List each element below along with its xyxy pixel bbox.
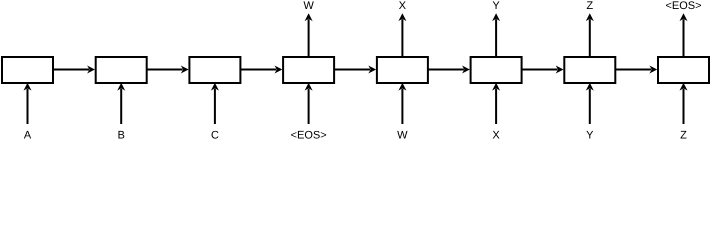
- recurrent arrow box 6 to box 7: [522, 69, 558, 71]
- recurrent arrow box 1 to box 2: [53, 69, 89, 71]
- output arrow from box 7: [589, 19, 591, 56]
- RNN box 8 (decoder cell 5): [658, 57, 709, 83]
- input label X: [493, 131, 500, 139]
- input arrow into box 6: [495, 89, 497, 124]
- RNN box 6 (decoder cell 3): [471, 57, 522, 83]
- recurrent arrow box 3 to box 4: [240, 69, 276, 71]
- recurrent arrow box 4 to box 5: [334, 69, 370, 71]
- input arrow into box 8: [683, 89, 685, 124]
- input arrow into box 1: [27, 89, 29, 124]
- input arrow into box 3: [214, 89, 216, 124]
- RNN box 4 (decoder cell 1): [283, 57, 334, 83]
- output arrow from box 6: [495, 19, 497, 56]
- recurrent arrow box 2 to box 3: [147, 69, 183, 71]
- input arrow into box 5: [401, 89, 403, 124]
- input label Z: [680, 131, 686, 139]
- output label X: [399, 1, 406, 9]
- RNN box 5 (decoder cell 2): [377, 57, 428, 83]
- output arrow from box 5: [401, 19, 403, 56]
- output arrow from box 4: [308, 19, 310, 56]
- RNN box 1 (encoder cell 1): [2, 57, 53, 83]
- input arrow into box 4: [308, 89, 310, 124]
- input arrow into box 2: [120, 89, 122, 124]
- RNN box 3 (encoder cell 3): [189, 57, 240, 83]
- input label A: [24, 131, 31, 139]
- output label Y: [493, 1, 500, 9]
- output label W: [303, 1, 313, 9]
- output arrow from box 8: [683, 19, 685, 56]
- input label B: [118, 131, 124, 139]
- input label C: [212, 131, 219, 139]
- recurrent arrow box 5 to box 6: [428, 69, 464, 71]
- input arrow into box 7: [589, 89, 591, 124]
- recurrent arrow box 7 to box 8: [615, 69, 651, 71]
- input label Y: [586, 131, 593, 139]
- output label &lt;EOS&gt;: [666, 1, 701, 9]
- RNN box 2 (encoder cell 2): [96, 57, 147, 83]
- input label &lt;EOS&gt;: [291, 131, 326, 139]
- output label Z: [587, 1, 593, 9]
- input label W: [397, 131, 407, 139]
- RNN box 7 (decoder cell 4): [564, 57, 615, 83]
